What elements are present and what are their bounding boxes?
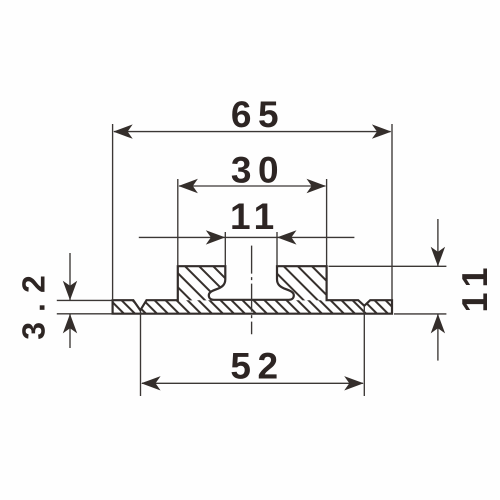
dimension line 65 (114, 131, 391, 133)
svg-text:11: 11 (454, 260, 495, 312)
arrowhead 65 right (372, 124, 392, 138)
slot centerline (dash-dot) (251, 246, 253, 335)
arrowhead 3.2 top (points down) (63, 281, 77, 301)
dimension line 52 (142, 382, 363, 384)
arrowhead 65 left (113, 124, 133, 138)
profile outline (cross-section of extrusion) (113, 266, 392, 314)
extension line left of dim 52 (140, 311, 142, 396)
dimension tail above 11 right (437, 219, 439, 266)
extension line top of dim 3.2 (57, 299, 113, 301)
dimension tail below 3.2 (69, 314, 71, 348)
extension line right of dim 30 (326, 179, 328, 266)
arrowhead 11right top (points down) (431, 247, 445, 267)
arrowhead 30 left (178, 179, 198, 193)
arrowhead 11 left (points right) (206, 230, 226, 244)
dimension line 11 (continuous, arrows outside) (139, 236, 355, 238)
dimension tail above 3.2 (69, 253, 71, 300)
extension line left of dim 30 (177, 179, 179, 266)
extension line right of dim 11 (slot wall extended) (276, 232, 278, 266)
arrowhead 30 right (307, 179, 327, 193)
section hatching: base plate (narrow pitch) (95, 296, 403, 318)
svg-text:3.2: 3.2 (16, 265, 52, 339)
svg-text:11: 11 (230, 196, 279, 237)
arrowhead 11right bottom (points up) (431, 314, 445, 334)
dimension line 30 (179, 185, 325, 187)
section hatching: boss (wide pitch) (137, 260, 365, 305)
dimension tail below 11 right (437, 314, 439, 361)
thin construction / dimension line work (57, 124, 447, 396)
extension line top of dim 11 right (329, 265, 447, 267)
extension line left of dim 65 (112, 124, 114, 300)
extension line bottom of dim 11 right (394, 313, 446, 315)
extension line left of dim 11 (slot wall extended) (224, 232, 226, 266)
arrowhead 3.2 bottom (points up) (63, 314, 77, 334)
extension line bottom of dim 3.2 (57, 313, 113, 315)
extension line right of dim 52 (363, 307, 365, 397)
arrowhead 52 left (141, 376, 161, 390)
arrowhead 11 right (points left) (277, 230, 297, 244)
extension line right of dim 65 (391, 124, 393, 300)
arrowhead 52 right (344, 376, 364, 390)
svg-text:30: 30 (231, 149, 285, 190)
svg-text:52: 52 (230, 345, 284, 386)
svg-text:65: 65 (231, 94, 285, 135)
